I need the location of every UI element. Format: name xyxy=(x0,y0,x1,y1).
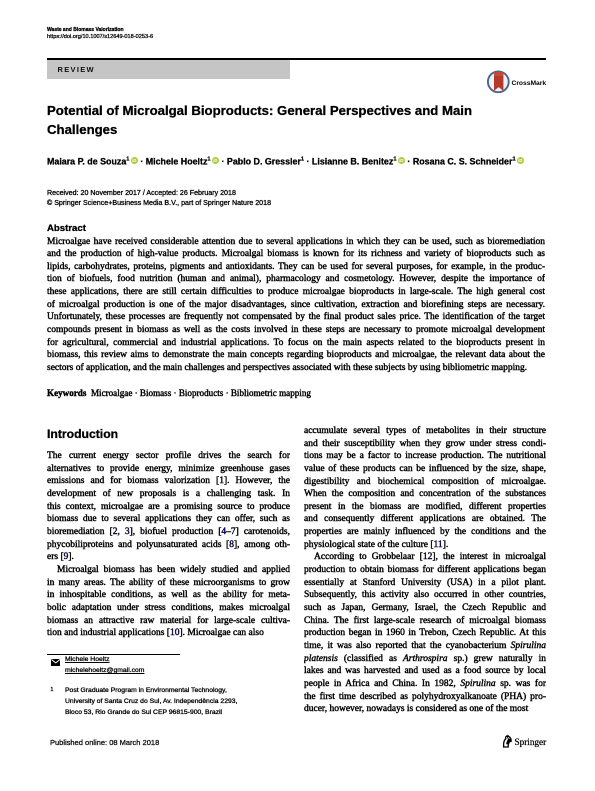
doi line xyxy=(47,34,153,40)
svg-text:iD: iD xyxy=(399,158,403,163)
REVIEW box xyxy=(47,60,290,79)
svg-text:Springer: Springer xyxy=(515,737,547,747)
keywords xyxy=(47,388,311,398)
authors xyxy=(47,156,567,167)
left column body xyxy=(47,450,290,640)
svg-text:iD: iD xyxy=(518,158,522,163)
received / accepted xyxy=(47,188,271,209)
REVIEW label xyxy=(58,66,95,74)
footnote rule xyxy=(47,654,180,655)
right column body xyxy=(304,425,546,716)
envelope icon xyxy=(51,659,61,666)
svg-text:iD: iD xyxy=(132,158,136,163)
abstract body xyxy=(47,236,545,375)
svg-text:CrossMark: CrossMark xyxy=(512,80,547,87)
title xyxy=(47,101,567,140)
published online xyxy=(50,738,159,747)
CrossMark badge xyxy=(487,70,549,94)
journal name xyxy=(47,27,124,33)
Abstract heading xyxy=(47,223,86,234)
top rule xyxy=(47,58,546,60)
footnote: corresponding author xyxy=(47,654,297,719)
springer logo xyxy=(501,734,547,748)
Introduction heading xyxy=(47,427,118,441)
svg-text:iD: iD xyxy=(213,158,217,163)
